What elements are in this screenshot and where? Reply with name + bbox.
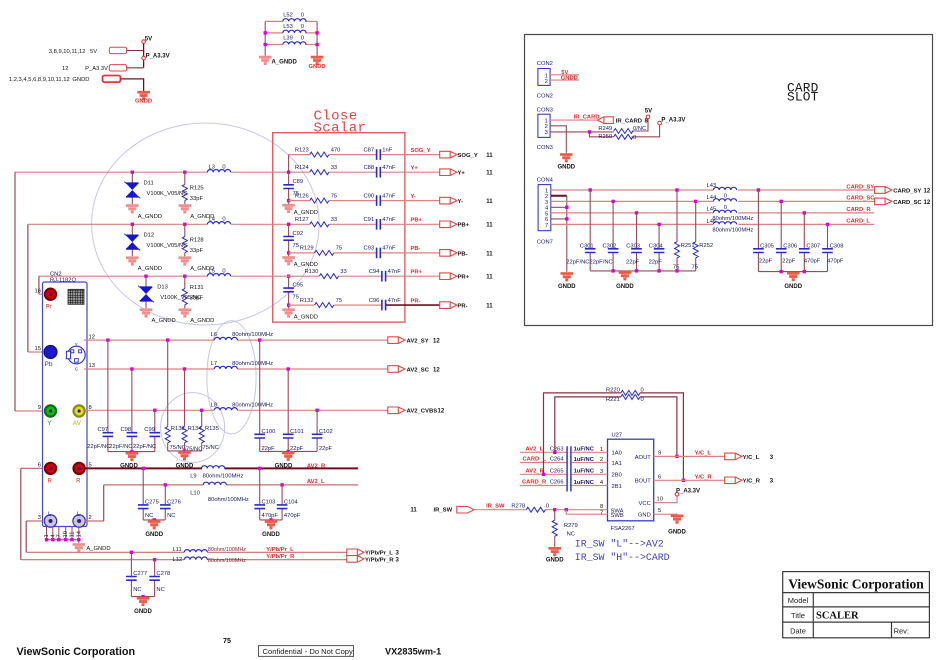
power node P_A3.3V xyxy=(675,492,679,496)
svg-text:Y: Y xyxy=(47,420,52,427)
svg-text:11: 11 xyxy=(410,508,417,514)
port arrow Y/Pb/Pr_R xyxy=(347,556,364,563)
resistor pack port R (P_A3.3V) xyxy=(109,65,126,71)
resistor R131 33pF xyxy=(184,276,186,308)
svg-text:R220: R220 xyxy=(606,388,620,394)
svg-text:D11: D11 xyxy=(144,181,154,187)
row PB+ wire xyxy=(231,223,440,225)
ground A_GNDD (D12) xyxy=(126,257,139,266)
ground A_GNDD (R125) xyxy=(179,204,192,213)
port arrow PR+ xyxy=(440,273,457,280)
capacitor C103 470pF xyxy=(259,468,261,520)
svg-text:C276: C276 xyxy=(167,500,181,506)
inductor L39 0 xyxy=(283,42,306,45)
svg-text:1A1: 1A1 xyxy=(612,461,622,467)
capacitor C307 470pF xyxy=(803,213,805,272)
capacitor C102 22pF xyxy=(315,409,318,412)
ground GNDD (CON4) xyxy=(561,272,574,281)
ground pins 1,4,7,10,11,14 xyxy=(47,527,79,544)
svg-text:0: 0 xyxy=(546,504,549,510)
svg-text:0: 0 xyxy=(222,164,225,170)
svg-text:Y/Pb/Pr_L: Y/Pb/Pr_L xyxy=(365,551,393,557)
svg-text:C: C xyxy=(75,367,79,372)
svg-text:R252: R252 xyxy=(699,243,713,249)
svg-text:0: 0 xyxy=(222,268,225,274)
svg-text:5V: 5V xyxy=(90,49,97,55)
power node 5V xyxy=(142,40,146,44)
svg-text:GNDD: GNDD xyxy=(561,76,578,82)
svg-text:470pF: 470pF xyxy=(284,513,301,519)
inductor L43 0 xyxy=(713,187,736,190)
svg-text:6: 6 xyxy=(658,474,661,480)
svg-text:C98: C98 xyxy=(121,427,132,433)
inductor L10 80ohm/100MHz xyxy=(203,482,226,485)
svg-text:3,8,9,10,11,12: 3,8,9,10,11,12 xyxy=(49,49,86,55)
svg-text:CON4: CON4 xyxy=(537,178,554,184)
svg-text:PB-: PB- xyxy=(458,251,468,257)
svg-text:80ohm/100MHz: 80ohm/100MHz xyxy=(208,547,246,553)
svg-text:C96: C96 xyxy=(369,298,380,304)
svg-text:80ohm/100MHz: 80ohm/100MHz xyxy=(232,361,273,367)
capacitor C265 1uF/NC xyxy=(567,468,571,480)
capacitor C97 22pF/NC xyxy=(106,338,109,341)
svg-text:C90: C90 xyxy=(363,193,374,199)
svg-text:11: 11 xyxy=(486,199,493,205)
svg-text:11: 11 xyxy=(486,223,493,229)
svg-text:Y/Pb/Pr_R: Y/Pb/Pr_R xyxy=(365,558,394,564)
svg-text:47nF: 47nF xyxy=(382,193,396,199)
svg-text:A_GNDD: A_GNDD xyxy=(190,318,214,324)
jack AV xyxy=(74,405,85,416)
svg-text:Title: Title xyxy=(791,611,805,620)
svg-text:12: 12 xyxy=(433,339,440,345)
svg-text:C305: C305 xyxy=(760,244,774,250)
svg-text:75: 75 xyxy=(692,265,698,271)
wire Pr row from CN2 pin16 xyxy=(39,276,319,294)
svg-text:GNDD: GNDD xyxy=(262,532,280,538)
svg-text:12: 12 xyxy=(89,334,95,340)
svg-text:R127: R127 xyxy=(295,217,309,223)
port arrow Y+ xyxy=(440,169,457,176)
resistor R135 75/NC xyxy=(200,409,203,412)
svg-text:L10: L10 xyxy=(190,490,200,496)
svg-text:11: 11 xyxy=(486,251,493,257)
capacitor C104 470pF xyxy=(281,485,283,520)
svg-text:33: 33 xyxy=(331,165,337,171)
capacitor C304 22pF xyxy=(658,224,660,271)
capacitor C95 75 xyxy=(287,275,290,278)
svg-text:Y/C_R: Y/C_R xyxy=(743,479,761,485)
svg-text:GNDD: GNDD xyxy=(309,64,326,70)
jack Y xyxy=(45,405,56,416)
resistor R249 0/NC xyxy=(614,129,633,134)
svg-text:75: 75 xyxy=(336,298,342,304)
svg-text:R128: R128 xyxy=(190,238,204,244)
svg-text:R: R xyxy=(48,478,53,484)
svg-text:80ohm/100MHz: 80ohm/100MHz xyxy=(208,558,246,564)
svg-text:22pF: 22pF xyxy=(759,259,773,265)
svg-text:1: 1 xyxy=(600,447,603,453)
capacitor C308 470pF xyxy=(827,224,829,271)
svg-text:C91: C91 xyxy=(363,217,374,223)
svg-text:11: 11 xyxy=(486,275,493,281)
capacitor C275 NC xyxy=(142,468,144,520)
svg-text:SOG_Y: SOG_Y xyxy=(411,148,431,154)
svg-text:47nF: 47nF xyxy=(388,269,402,275)
svg-text:Date: Date xyxy=(790,627,806,636)
wire Y row from CN2 pin9 xyxy=(15,172,207,411)
svg-text:L8: L8 xyxy=(211,402,217,408)
svg-text:C302: C302 xyxy=(603,244,617,250)
svg-text:15: 15 xyxy=(35,346,41,352)
svg-text:GNDD: GNDD xyxy=(616,284,634,290)
inductor L53 0 xyxy=(283,30,306,33)
ground GNDD xyxy=(137,91,150,100)
svg-text:16: 16 xyxy=(35,288,41,294)
capacitor C278 NC xyxy=(154,560,156,597)
wire input AV2_R xyxy=(520,473,608,475)
svg-text:L5: L5 xyxy=(209,268,215,274)
svg-text:A_GNDD: A_GNDD xyxy=(294,262,318,268)
resistor R278 0 xyxy=(526,507,545,512)
svg-text:C104: C104 xyxy=(284,500,299,506)
port arrow SOG_Y xyxy=(440,151,457,158)
port arrow CARD_SC xyxy=(875,198,892,205)
port arrow AV2_SC xyxy=(388,366,405,373)
svg-text:75: 75 xyxy=(223,636,231,645)
svg-text:14: 14 xyxy=(76,530,82,537)
power node P_A3.3V xyxy=(142,56,146,60)
svg-text:BOUT: BOUT xyxy=(635,479,652,485)
capacitor C92 75 xyxy=(287,223,290,226)
wire SWB link xyxy=(566,510,607,515)
port arrow IR_SW xyxy=(457,506,474,513)
wire res bus + ground GNDD xyxy=(168,450,202,452)
svg-text:7: 7 xyxy=(545,223,548,229)
port arrow AV2_SY xyxy=(388,337,405,344)
resistor R128 33pF xyxy=(184,224,186,256)
svg-text:IR_SW: IR_SW xyxy=(486,504,505,510)
op-amp U27 body xyxy=(608,439,654,521)
inductor L11 80ohm/100MHz xyxy=(184,550,207,553)
svg-text:D13: D13 xyxy=(157,285,168,291)
svg-text:C101: C101 xyxy=(290,429,304,435)
svg-text:C100: C100 xyxy=(262,429,276,435)
svg-text:NC: NC xyxy=(145,513,153,519)
svg-text:L7: L7 xyxy=(211,361,217,367)
inductor L44 0 xyxy=(713,199,736,202)
svg-text:A_GNDD: A_GNDD xyxy=(152,318,176,324)
svg-text:L6: L6 xyxy=(211,332,217,338)
ground A_GNDD (R131) xyxy=(179,309,192,318)
capacitor C100 22pF xyxy=(258,338,261,341)
svg-text:22pF/NC: 22pF/NC xyxy=(133,444,156,450)
svg-text:R250: R250 xyxy=(598,134,612,140)
row PR- wire xyxy=(289,304,382,306)
capacitor C101 22pF xyxy=(287,367,290,370)
svg-text:IR_SW "L"-->AV2: IR_SW "L"-->AV2 xyxy=(575,539,664,550)
svg-text:Y+: Y+ xyxy=(411,165,419,171)
resistor R279 NC xyxy=(554,510,556,547)
svg-text:9: 9 xyxy=(38,405,41,411)
wire R249 net xyxy=(550,119,660,137)
svg-text:PR+: PR+ xyxy=(411,269,423,275)
svg-text:AOUT: AOUT xyxy=(635,455,652,461)
svg-text:Y-: Y- xyxy=(458,199,464,205)
svg-text:1uF/NC: 1uF/NC xyxy=(574,469,595,475)
svg-text:5V: 5V xyxy=(645,108,652,114)
svg-text:C266: C266 xyxy=(550,480,564,486)
wire input AV2_L xyxy=(520,451,608,453)
svg-text:12: 12 xyxy=(438,409,445,415)
wire CARD_L row xyxy=(551,223,874,225)
wire AV2_L row (pin2) xyxy=(85,485,358,521)
port arrow IR_CARD xyxy=(598,117,614,124)
svg-text:11: 11 xyxy=(486,153,493,159)
svg-text:3: 3 xyxy=(396,551,400,557)
svg-text:D12: D12 xyxy=(144,233,155,239)
ground A_GNDD (D11) xyxy=(126,204,139,213)
svg-text:V100K_V05/NC: V100K_V05/NC xyxy=(147,191,188,197)
capacitor C306 22pF xyxy=(780,201,782,271)
svg-text:CARD_SC: CARD_SC xyxy=(893,200,922,206)
svg-text:R279: R279 xyxy=(564,523,578,529)
resistor pack port R (GNDD) xyxy=(103,76,121,83)
svg-text:8: 8 xyxy=(600,504,603,510)
wire input CARD_R xyxy=(520,485,608,487)
svg-text:PR-: PR- xyxy=(411,298,421,304)
capacitor C264 1uF/NC xyxy=(567,457,571,469)
svg-text:R130: R130 xyxy=(304,269,318,275)
svg-text:R125: R125 xyxy=(190,186,204,192)
svg-text:C89: C89 xyxy=(293,179,304,185)
svg-text:AV2_L: AV2_L xyxy=(526,447,544,453)
row PR+ wire xyxy=(339,275,440,277)
svg-text:A_GNDD: A_GNDD xyxy=(138,214,162,220)
inductor L5 0 xyxy=(207,274,230,277)
capacitor C266 1uF/NC xyxy=(567,480,571,492)
svg-text:C97: C97 xyxy=(98,427,109,433)
svg-text:C307: C307 xyxy=(806,244,820,250)
svg-text:L44: L44 xyxy=(707,195,717,201)
svg-text:R132: R132 xyxy=(300,298,314,304)
inductor L3 0 xyxy=(207,170,230,173)
inductor L6 80ohm/100MHz xyxy=(214,337,237,340)
wire cap bus + ground GNDD xyxy=(260,450,317,452)
svg-text:AV: AV xyxy=(73,420,82,427)
svg-text:L9: L9 xyxy=(190,473,196,479)
wire pin1 5V xyxy=(550,74,579,76)
svg-text:R129: R129 xyxy=(300,246,314,252)
svg-text:C102: C102 xyxy=(319,429,333,435)
svg-text:9: 9 xyxy=(658,450,661,456)
svg-text:L4: L4 xyxy=(209,216,216,222)
svg-text:C265: C265 xyxy=(550,469,564,475)
svg-text:2: 2 xyxy=(545,79,548,85)
svg-text:1uF/NC: 1uF/NC xyxy=(574,457,595,463)
svg-text:C306: C306 xyxy=(783,244,797,250)
wire VCC to P_A3.3V xyxy=(654,496,677,503)
svg-text:0: 0 xyxy=(301,12,304,18)
svg-text:CON7: CON7 xyxy=(537,240,553,246)
port arrow AV2_CVBS xyxy=(388,407,405,414)
svg-text:U27: U27 xyxy=(612,433,623,439)
power node P_A3.3V xyxy=(658,121,662,125)
svg-text:47nF: 47nF xyxy=(388,298,402,304)
resistor R132 75 xyxy=(315,303,334,308)
inductor L45 80ohm/100MHz xyxy=(713,210,736,213)
svg-text:PB-: PB- xyxy=(411,246,421,252)
svg-text:22pF/NC: 22pF/NC xyxy=(87,444,110,450)
ground GNDD (CON3) xyxy=(560,153,573,162)
wire R221 loop (AV2_L to Y/C_L) xyxy=(555,397,677,457)
capacitor C305 22pF xyxy=(757,190,759,272)
svg-text:3: 3 xyxy=(770,479,774,485)
svg-text:80ohm/100MHz: 80ohm/100MHz xyxy=(232,402,273,408)
svg-text:R135: R135 xyxy=(205,426,219,432)
svg-text:R124: R124 xyxy=(295,165,310,171)
resistor R221 0 xyxy=(621,394,640,399)
capacitor C301 22pF/NC xyxy=(589,190,591,271)
wire AV2_SY row (pin12) xyxy=(84,339,388,341)
ground A_GNDD (R128) xyxy=(179,257,192,266)
svg-text:CON2: CON2 xyxy=(537,61,553,67)
svg-text:GNDD: GNDD xyxy=(134,609,152,615)
svg-text:L43: L43 xyxy=(707,183,717,189)
inductor L8 80ohm/100MHz xyxy=(214,408,237,411)
svg-text:22pF/NC: 22pF/NC xyxy=(590,259,613,265)
svg-text:SCALER: SCALER xyxy=(816,611,859,622)
junction dots row Y xyxy=(131,171,134,174)
wire vertical 5V to P_A3.3V xyxy=(143,43,145,68)
svg-text:NC: NC xyxy=(567,532,575,538)
svg-text:GNDD: GNDD xyxy=(784,284,802,290)
svg-text:L3: L3 xyxy=(209,164,215,170)
svg-text:Y/Pb/Pr_R: Y/Pb/Pr_R xyxy=(266,554,295,560)
svg-text:0/NC: 0/NC xyxy=(633,126,646,132)
svg-text:PR-: PR- xyxy=(458,304,468,310)
svg-text:CON3: CON3 xyxy=(537,145,553,151)
port arrow Y/C_L xyxy=(725,453,742,460)
svg-text:Scalar: Scalar xyxy=(314,121,367,137)
svg-text:0: 0 xyxy=(641,397,644,403)
wire CARD_SC row xyxy=(551,200,875,202)
capacitor C91 47nF xyxy=(377,219,381,230)
svg-text:1A0: 1A0 xyxy=(612,451,622,457)
port arrow CARD_SY xyxy=(875,187,892,194)
ground GNDD (R279) xyxy=(548,547,561,556)
wire Y/Pb/Pr_L row (pin3) xyxy=(26,521,347,552)
svg-text:C278: C278 xyxy=(156,571,170,577)
wire xyxy=(127,50,144,52)
svg-text:CARD_R: CARD_R xyxy=(522,480,547,486)
svg-text:1uF/NC: 1uF/NC xyxy=(574,480,595,486)
svg-text:RJ-1182Q: RJ-1182Q xyxy=(50,277,76,283)
jack Pr xyxy=(45,289,56,300)
svg-text:22pF: 22pF xyxy=(626,259,640,265)
junction dots row Pb xyxy=(131,223,134,226)
wire cap bus + ground GNDD xyxy=(108,451,155,453)
svg-text:L12: L12 xyxy=(173,557,183,563)
svg-text:AV2_R: AV2_R xyxy=(526,469,545,475)
svg-text:47nF: 47nF xyxy=(382,246,396,252)
svg-text:IR_SW "H"-->CARD: IR_SW "H"-->CARD xyxy=(575,552,670,563)
S-video jack xyxy=(68,346,86,364)
wire vert SOG tap xyxy=(288,155,290,173)
svg-text:33pF: 33pF xyxy=(190,296,204,302)
svg-text:1uF/NC: 1uF/NC xyxy=(574,447,595,453)
wire IR_SW xyxy=(474,509,608,511)
svg-text:11: 11 xyxy=(70,531,76,537)
svg-text:CARD_SY: CARD_SY xyxy=(846,184,874,190)
svg-text:C301: C301 xyxy=(580,244,594,250)
svg-text:C88: C88 xyxy=(363,165,374,171)
svg-text:R126: R126 xyxy=(295,193,309,199)
svg-text:12: 12 xyxy=(433,367,440,373)
svg-text:GNDD: GNDD xyxy=(72,77,89,83)
wire gnd bus left xyxy=(590,270,696,272)
svg-text:L39: L39 xyxy=(283,36,293,42)
Close Scalar frame xyxy=(273,133,405,322)
wire CARD_SY row xyxy=(551,189,875,191)
capacitor C93 47nF xyxy=(377,248,381,259)
svg-text:NC: NC xyxy=(156,587,164,593)
svg-text:Y+: Y+ xyxy=(458,171,466,177)
svg-text:PR+: PR+ xyxy=(458,275,470,281)
svg-text:SOG_Y: SOG_Y xyxy=(458,153,478,159)
svg-text:33: 33 xyxy=(340,269,346,275)
svg-text:11: 11 xyxy=(486,304,493,310)
svg-text:V100K_V05/NC: V100K_V05/NC xyxy=(147,243,188,249)
svg-text:0: 0 xyxy=(641,388,644,394)
row Y+ wire xyxy=(231,171,440,173)
svg-text:CON3: CON3 xyxy=(537,107,553,113)
svg-text:P_A3.3V: P_A3.3V xyxy=(85,66,108,72)
svg-text:GNDD: GNDD xyxy=(135,99,152,105)
ground A_GNDD xyxy=(288,201,290,204)
capacitor C89 75 xyxy=(288,172,290,200)
svg-text:3: 3 xyxy=(600,469,603,475)
svg-text:GNDD: GNDD xyxy=(557,164,575,170)
svg-text:CON2: CON2 xyxy=(537,93,553,99)
svg-text:7: 7 xyxy=(600,511,603,517)
svg-text:80ohm/100MHz: 80ohm/100MHz xyxy=(203,473,244,479)
svg-text:AV2_SY: AV2_SY xyxy=(407,339,429,345)
svg-text:CARD_R: CARD_R xyxy=(846,207,871,213)
wire pin2 GNDD xyxy=(550,79,579,81)
TVS diode D13 xyxy=(145,276,147,308)
svg-text:P_A3.3V: P_A3.3V xyxy=(146,54,170,60)
svg-text:13: 13 xyxy=(89,363,95,369)
svg-text:C308: C308 xyxy=(830,244,844,250)
svg-text:SWB: SWB xyxy=(611,513,624,519)
svg-text:GNDD: GNDD xyxy=(558,284,576,290)
svg-text:75: 75 xyxy=(293,243,299,249)
svg-text:C275: C275 xyxy=(145,500,159,506)
svg-text:22pF: 22pF xyxy=(319,446,333,452)
inductor L7 80ohm/100MHz xyxy=(214,366,237,369)
svg-text:C93: C93 xyxy=(363,246,374,252)
inductor L52 0 xyxy=(283,19,306,22)
resistor R251 75 xyxy=(676,190,678,271)
CARD SLOT frame xyxy=(525,35,933,326)
svg-text:75: 75 xyxy=(331,193,337,199)
svg-text:5V: 5V xyxy=(145,37,152,43)
TVS diode D12 xyxy=(131,224,133,256)
svg-text:12: 12 xyxy=(924,200,931,206)
svg-text:80ohm/100MHz: 80ohm/100MHz xyxy=(232,332,273,338)
capacitor C277 NC xyxy=(130,552,132,596)
